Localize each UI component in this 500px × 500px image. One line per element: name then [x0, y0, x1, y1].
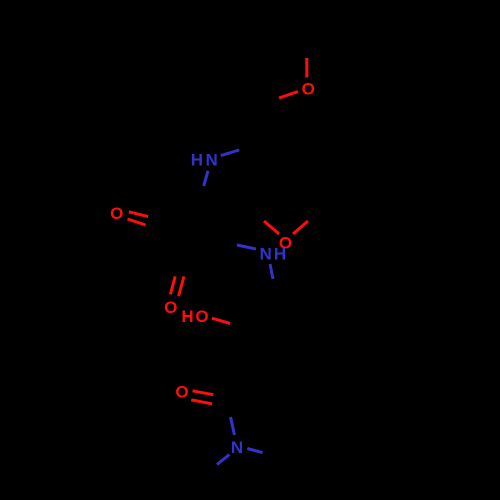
svg-text:O: O	[164, 298, 177, 317]
svg-text:O: O	[195, 307, 208, 326]
svg-text:O: O	[110, 204, 123, 223]
svg-text:N: N	[260, 245, 272, 264]
wire: bond N1-C up-right	[221, 150, 239, 156]
wire: bond C-N2 left	[237, 245, 256, 249]
svg-text:O: O	[175, 383, 188, 402]
wire: bond O2-C up-left	[264, 221, 279, 234]
wire: bond C-N3 up	[231, 417, 235, 435]
wire: double bond O6=C line 2	[191, 400, 212, 404]
wire: double bond O3=C line 2	[128, 219, 146, 225]
wire: bond C-O1 vertical (methoxy/ring O top)	[305, 58, 308, 78]
wire: bond O2-C up-right	[293, 221, 308, 234]
wire: bond N1-C down	[204, 171, 208, 186]
wire: double bond O4=C line 2	[179, 276, 184, 296]
svg-text:O: O	[302, 80, 315, 99]
wire: bond O1-C down-left	[279, 92, 298, 99]
svg-text:H: H	[191, 151, 203, 170]
wire: bond N3-CH3 down-left	[217, 455, 230, 465]
wire: double bond O4=C line 1	[170, 276, 175, 294]
wire: bond N2-C down	[270, 264, 273, 279]
svg-text:N: N	[206, 151, 218, 170]
svg-text:N: N	[231, 438, 243, 457]
svg-text:H: H	[274, 245, 286, 264]
wire: bond N3-CH3 right	[247, 449, 262, 453]
wire: double bond O3=C line 1	[129, 212, 148, 217]
svg-text:H: H	[181, 307, 193, 326]
wire: double bond O6=C line 1	[193, 391, 214, 395]
wire: bond O5-C right	[212, 318, 230, 323]
